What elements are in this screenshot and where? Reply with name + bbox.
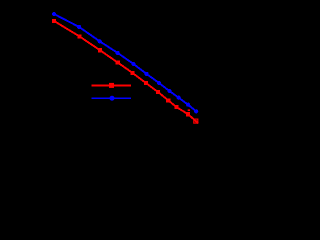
blue circle markers [52,12,198,114]
red marker fragment above line near x=189 [188,109,190,111]
blue data line [54,14,196,111]
red data line [54,21,198,123]
legend entry 1: red line [92,84,132,86]
legend entry 1: red square marker [109,83,114,88]
legend entry 2: blue circle marker [110,96,115,101]
legend entry 2: blue line [92,97,132,99]
red square markers [52,19,190,116]
plot background [0,0,215,167]
red hollow square marker (last) [194,119,198,123]
